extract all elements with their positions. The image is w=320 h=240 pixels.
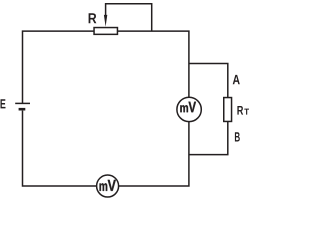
resistor R (box)	[94, 28, 117, 35]
wire: left side from battery down to bottom-left corner and right to voltmeter M2	[23, 111, 97, 186]
voltmeter M1 (right mV meter) circle	[177, 97, 201, 121]
label A (terminal)	[233, 75, 240, 84]
wire: bottom side from voltmeter M2 to bottom-right corner up to voltmeter M1	[118, 121, 188, 186]
wire: left side from battery up to top-left corner and right to resistor R	[23, 31, 95, 103]
label R (rheostat)	[89, 13, 97, 23]
wire: wiper tap loop from arrow up over to top wire	[106, 4, 152, 31]
resistor RT (box)	[224, 98, 232, 122]
label mV inside voltmeter M1: m	[180, 105, 188, 112]
label RT: R (thermistor)	[237, 106, 243, 115]
label mV inside voltmeter M1: V	[189, 102, 197, 113]
wire: top side from resistor R to top-right corner, down to voltmeter M1	[118, 31, 189, 98]
label B (terminal)	[235, 132, 240, 141]
battery E: short thick negative plate	[19, 108, 26, 111]
wire: branch from node at right wire to terminal A and resistor RT	[189, 64, 228, 98]
battery E: long positive plate	[15, 102, 30, 104]
label mV inside voltmeter M2: V	[108, 180, 116, 191]
wire: from resistor RT down past terminal B back to right wire node	[189, 121, 228, 154]
label RT: T subscript	[244, 109, 249, 115]
wiper arrow head onto resistor R	[104, 15, 107, 27]
label mV inside voltmeter M2: m	[100, 183, 108, 191]
label E (battery)	[1, 99, 6, 108]
voltmeter M2 (bottom mV meter) circle	[97, 175, 119, 197]
